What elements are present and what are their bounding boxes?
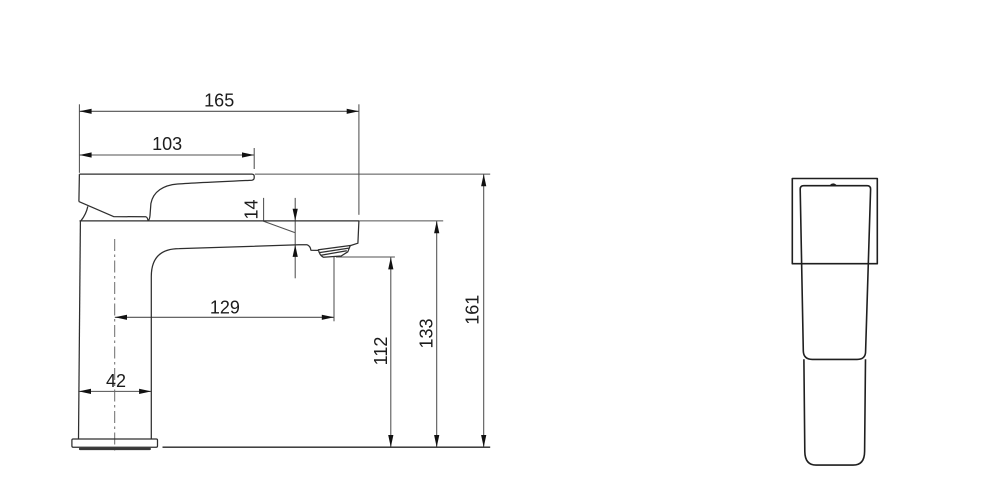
svg-text:133: 133 [417, 318, 437, 348]
svg-text:165: 165 [204, 90, 234, 110]
svg-text:103: 103 [152, 134, 182, 154]
svg-text:112: 112 [371, 337, 391, 366]
svg-text:161: 161 [463, 295, 483, 325]
svg-text:42: 42 [106, 371, 126, 391]
svg-text:129: 129 [210, 298, 240, 318]
svg-text:14: 14 [242, 199, 262, 219]
